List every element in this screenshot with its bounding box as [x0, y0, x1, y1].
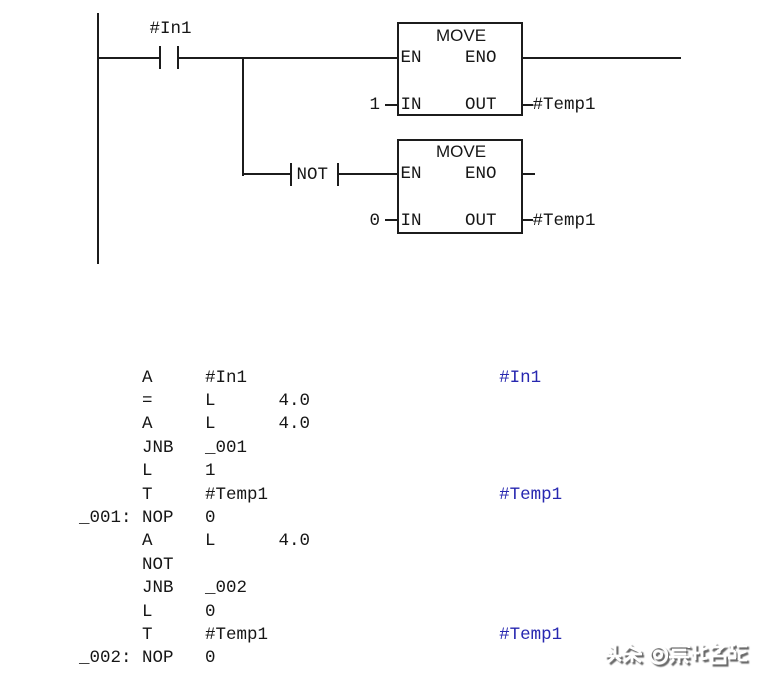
- MOVE box U1 pin OUT label: [465, 96, 497, 114]
- MOVE box U1 pin EN label: [401, 49, 422, 67]
- MOVE box U2 title: [436, 143, 486, 161]
- wire U1 ENO output to right: [521, 57, 681, 59]
- wire rung2 segment from NOT to MOVE box 2 EN pin: [339, 173, 398, 175]
- MOVE box U1 outline: [397, 22, 523, 116]
- MOVE box U2 pin IN label: [401, 212, 422, 230]
- MOVE box U2 pin ENO label: [465, 165, 497, 183]
- NOT element label: [297, 166, 329, 184]
- MOVE box U1 pin IN label: [401, 96, 422, 114]
- contact #In1 right bar: [177, 46, 179, 70]
- wire rung1 segment from contact to MOVE box 1 EN pin: [179, 57, 398, 59]
- wire stub U1 IN pin: [385, 104, 398, 106]
- label #Temp1 at U1 OUT: [533, 96, 596, 114]
- wire stub U2 ENO pin: [521, 173, 535, 175]
- branch junction vertical wire: [242, 57, 244, 176]
- STL statement list code block: [79, 367, 562, 671]
- wire stub U2 OUT pin: [521, 219, 533, 221]
- label #Temp1 at U2 OUT: [533, 212, 596, 230]
- left power rail: [97, 13, 99, 264]
- watermark logo: [600, 640, 763, 672]
- contact #In1 left bar: [159, 46, 161, 70]
- label #In1 (contact name): [150, 20, 192, 38]
- wire stub U1 OUT pin: [521, 104, 533, 106]
- MOVE box U2 outline: [397, 139, 523, 234]
- NOT element left bar: [290, 163, 292, 186]
- constant 1 operand at U1 IN: [370, 96, 381, 114]
- MOVE box U1 title: [436, 27, 486, 45]
- NOT element right bar: [337, 163, 339, 186]
- MOVE box U2 pin EN label: [401, 165, 422, 183]
- MOVE box U2 pin OUT label: [465, 212, 497, 230]
- wire rung1 segment from rail to contact: [97, 57, 159, 59]
- wire stub U2 IN pin: [385, 219, 398, 221]
- wire rung2 segment from branch to NOT: [242, 173, 290, 175]
- constant 0 operand at U2 IN: [370, 212, 381, 230]
- MOVE box U1 pin ENO label: [465, 49, 497, 67]
